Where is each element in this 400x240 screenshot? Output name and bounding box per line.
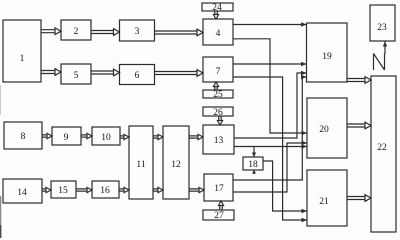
arrow 15 to 16 [76, 187, 92, 192]
arrow 27 to 17 [218, 201, 223, 210]
wire 17 to 19 [233, 75, 307, 180]
wire 13 to 20 [234, 144, 307, 149]
block 8 box [4, 122, 42, 149]
arrow 9 to 10 [81, 133, 92, 138]
svg-text:8: 8 [21, 132, 26, 142]
svg-text:15: 15 [58, 186, 68, 196]
arrow 10 to 11 [120, 134, 129, 139]
svg-text:2: 2 [74, 27, 79, 37]
block 9 box [52, 127, 81, 145]
arrow 20 to 22 [347, 122, 371, 129]
arrow 12 to 17 [189, 187, 204, 192]
wire 18 to 21 [263, 161, 307, 213]
svg-text:23: 23 [377, 23, 387, 33]
arrow 25 to 7 [213, 82, 218, 90]
arrow 14 to 15 [42, 187, 51, 192]
arrow 3 to 4 [155, 29, 204, 36]
svg-text:25: 25 [213, 90, 223, 100]
svg-text:13: 13 [214, 136, 224, 146]
wire 13 to 19 [234, 71, 307, 138]
arrow 19 to 22 [347, 77, 371, 84]
svg-text:4: 4 [216, 29, 221, 39]
left-edge scan mark (faint) [0, 85, 1, 115]
arrow 24 to 4 [213, 11, 218, 19]
block 14 box [3, 179, 42, 203]
arrow 11 to 12 lower [153, 187, 163, 192]
arrow 8 to 9 [42, 133, 52, 138]
arrow 16 to 11 [119, 187, 129, 192]
svg-text:14: 14 [17, 188, 27, 198]
arrow 5 to 6 [91, 69, 120, 76]
arrow 2 to 3 [91, 29, 120, 36]
radio-link break symbol (N zigzag) [374, 54, 385, 71]
wire 7 to 19 [233, 62, 307, 67]
wire 13 branch to 18 [252, 147, 256, 158]
svg-text:27: 27 [214, 211, 224, 221]
block 3 box [120, 20, 155, 41]
wire 7 to 21 [233, 77, 307, 222]
block 20 box [307, 98, 347, 158]
block 10 box [92, 127, 120, 145]
svg-text:12: 12 [171, 160, 181, 170]
block 26 box [203, 107, 233, 116]
block 19 box [307, 23, 348, 82]
left-edge scan mark (dark) [0, 225, 1, 238]
svg-text:11: 11 [136, 160, 145, 170]
arrow 21 to 22 [347, 195, 371, 202]
svg-text:1: 1 [20, 54, 25, 64]
block 5 box [61, 64, 91, 84]
svg-text:20: 20 [319, 125, 329, 135]
block 1 box [3, 20, 41, 82]
svg-text:7: 7 [216, 67, 221, 77]
block 17 box [204, 174, 233, 201]
svg-text:9: 9 [64, 133, 69, 143]
block 4 box [203, 19, 233, 45]
block 15 box [51, 181, 76, 198]
svg-text:6: 6 [135, 71, 140, 81]
wire 17 to 18 [252, 170, 256, 174]
svg-text:22: 22 [377, 143, 387, 153]
block 21 box [307, 170, 347, 226]
svg-text:19: 19 [322, 52, 332, 62]
block 7 box [203, 57, 233, 82]
svg-text:5: 5 [74, 71, 79, 81]
block 25 box [203, 90, 233, 98]
block 27 box [203, 210, 234, 220]
svg-text:16: 16 [100, 186, 110, 196]
arrow 1 to 5 [41, 69, 61, 76]
arrow 12 to 13 [189, 134, 203, 139]
block 12 box [163, 126, 189, 199]
block 6 box [120, 65, 155, 85]
block 16 box [92, 181, 119, 198]
wire 4 to 19 [233, 22, 307, 27]
svg-text:10: 10 [101, 133, 111, 143]
svg-text:21: 21 [319, 197, 329, 207]
svg-text:3: 3 [135, 27, 140, 37]
block 11 box [129, 126, 153, 199]
arrow 11 to 12 upper [153, 134, 163, 139]
block 13 box [203, 125, 234, 154]
wire 17 to 20 [233, 141, 307, 192]
wire 4 to 20 [233, 39, 307, 136]
left-edge scan mark (mid) [0, 196, 1, 238]
arrow 1 to 2 [41, 28, 61, 35]
block 23 box [370, 5, 395, 41]
block 2 box [61, 20, 91, 40]
block 22 box [371, 76, 396, 232]
arrow 26 to 13 [217, 116, 222, 125]
svg-text:17: 17 [214, 184, 224, 194]
arrow 6 to 7 [155, 70, 204, 77]
block 18 box [243, 157, 263, 170]
block 24 box [202, 3, 233, 11]
svg-text:18: 18 [248, 160, 258, 170]
wire link to 23 [383, 42, 387, 55]
